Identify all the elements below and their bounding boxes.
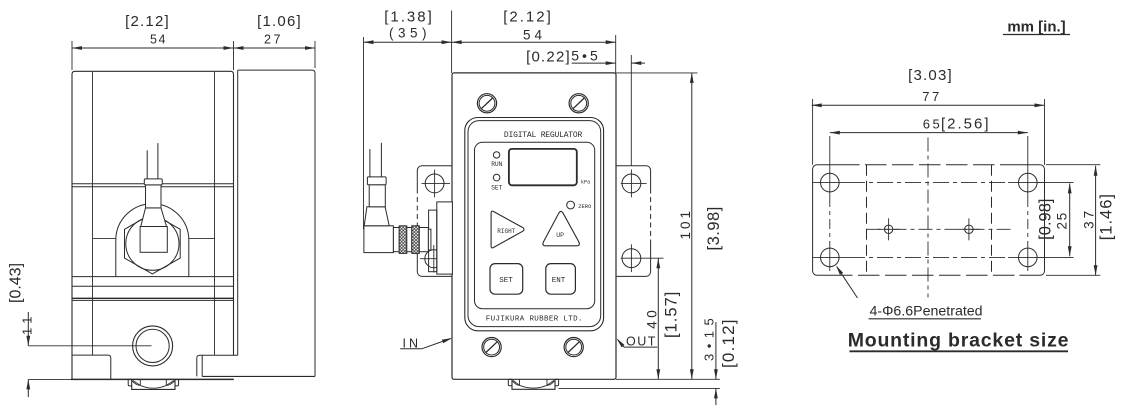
bracket: hole callout 4-phi6.6 Penetrated [837, 267, 858, 298]
front view: RIGHT button [491, 211, 524, 248]
front view: dimension 40 [1.57] [657, 258, 659, 379]
svg-text:4-Φ6.6Penetrated: 4-Φ6.6Penetrated [870, 304, 983, 320]
svg-text:101: 101 [678, 208, 693, 240]
left view: bottom left step notch [72, 355, 111, 379]
bracket: plate bottom edge hidden [831, 274, 1019, 276]
svg-text:(35): (35) [389, 25, 431, 40]
front view: corner screw bottom-left [482, 338, 501, 357]
svg-text:[2.56]: [2.56] [941, 116, 991, 133]
svg-text:54: 54 [523, 28, 546, 43]
svg-text:[2.12]: [2.12] [503, 8, 553, 25]
svg-text:40: 40 [644, 307, 659, 329]
left view: regulator body outline [72, 71, 234, 379]
front view: connector cable lines [369, 149, 371, 177]
front view: ENT key [546, 264, 576, 295]
front view: right mounting tab [616, 166, 651, 189]
front view: connector front ring [428, 229, 431, 250]
bracket: small holes centerline [867, 228, 1013, 230]
bracket: center small hole right [965, 225, 973, 233]
left view: connector clamp arch [116, 204, 189, 277]
svg-text:[1.46]: [1.46] [1098, 193, 1116, 240]
svg-text:[2.12]: [2.12] [125, 13, 170, 30]
front view: body top edge extension [616, 72, 698, 74]
bracket: center small hole left [884, 225, 892, 233]
svg-text:[0.98]: [0.98] [1037, 199, 1055, 240]
front view: dimension 54 [2.12] [452, 41, 616, 43]
front view: SET LED [493, 174, 500, 181]
bracket: hole top-left [821, 173, 840, 192]
svg-text:11: 11 [20, 312, 35, 336]
front view: connector front plate [429, 210, 437, 272]
svg-text:ENT: ENT [552, 277, 566, 285]
front view: regulator body outline [452, 73, 616, 379]
left view: body inner vertical line left [92, 72, 94, 355]
bracket: plate outline [813, 165, 838, 276]
left view: section split lines lower [72, 276, 234, 278]
left view: plug body square [140, 227, 167, 253]
front view: dimension 5.5 [0.22] [572, 62, 616, 64]
front view: SET key [490, 264, 523, 295]
left view: port leader line [28, 345, 151, 347]
left view: body inner vertical line right [214, 72, 216, 355]
bracket: dimension 77 [3.03] [812, 104, 1045, 106]
svg-text:[0.12]: [0.12] [719, 318, 738, 368]
left view: gland circle [126, 217, 179, 270]
front view: connector neck [393, 228, 399, 252]
svg-text:5•5: 5•5 [571, 48, 600, 64]
svg-text:37: 37 [1082, 208, 1097, 229]
left view: top dimension 54 mm [2.12] [72, 47, 234, 49]
left view: bottom right step lip [197, 355, 238, 376]
svg-text:[1.57]: [1.57] [662, 291, 680, 338]
left view: bottom port circle [133, 326, 173, 366]
front view: right-angle connector elbow [364, 226, 394, 253]
bracket: vertical centerline [927, 138, 929, 298]
front view: body bottom extension line [616, 378, 720, 380]
bracket: dimension 25 [0.98] [1069, 183, 1071, 256]
svg-text:DIGITAL REGULATOR: DIGITAL REGULATOR [504, 131, 583, 140]
front view: panel inner frame [468, 121, 601, 327]
svg-text:25: 25 [1055, 211, 1070, 230]
front view: RUN LED [493, 152, 499, 158]
bracket: hole centerline row top [813, 182, 849, 184]
bracket: bend line left [866, 165, 868, 276]
svg-text:Mounting bracket size: Mounting bracket size [848, 330, 1070, 352]
svg-text:SET: SET [499, 277, 513, 285]
front view: left tab hole bottom [425, 250, 443, 268]
front view: right tab hole top [622, 174, 641, 193]
left view: gland hex nut [125, 213, 181, 274]
svg-text:[0.22]: [0.22] [526, 49, 571, 66]
front view: left mounting tab [417, 166, 452, 189]
front view: ZERO LED [567, 201, 575, 209]
front view: bracket plate edge right (5.5 offset) [630, 74, 632, 166]
svg-text:OUT: OUT [626, 334, 657, 348]
front view: left tab hole top [425, 174, 444, 193]
front view: knurled ring 2 [412, 226, 420, 254]
svg-text:RIGHT: RIGHT [497, 228, 515, 235]
front view: right tab hole bottom [622, 249, 641, 268]
svg-text:3•15: 3•15 [701, 313, 716, 361]
front view: panel outer frame [465, 118, 604, 331]
svg-text:[1.38]: [1.38] [384, 8, 434, 25]
front view: corner screw top-left [477, 94, 496, 113]
svg-text:[3.98]: [3.98] [705, 206, 723, 250]
front view: display window [509, 149, 577, 185]
svg-text:ZERO: ZERO [578, 203, 592, 210]
left view: plug upper trapezoid [141, 208, 167, 227]
svg-text:kPa: kPa [581, 180, 590, 186]
bracket: hole centerline row bottom [813, 256, 849, 258]
left view: gland barrel [146, 185, 162, 208]
left view: clamp feature lines [93, 238, 116, 240]
svg-text:RUN: RUN [491, 161, 502, 168]
bracket: hole top-right [1019, 173, 1038, 192]
front view: connector cylinder [419, 228, 428, 252]
left view: vertical dimension 11 [0.43] [27, 312, 29, 346]
left view: bottom hex fitting [128, 379, 132, 386]
bracket: hole bottom-right [1019, 248, 1038, 267]
left view: section split lines upper [72, 183, 234, 185]
front view: dimension 101 [3.98] [691, 73, 693, 379]
bracket: plate top edge hidden [838, 164, 1007, 166]
front view: knurl spacer ring [407, 228, 412, 252]
left view: cable lines [146, 150, 148, 179]
bracket: hole bottom-left [821, 248, 840, 267]
left view: gland collar [144, 179, 162, 185]
front view: corner screw top-right [569, 94, 588, 113]
left view: bottom extension line [28, 378, 72, 380]
svg-text:65: 65 [923, 117, 942, 132]
front view: dimension (35) [1.38] [364, 41, 452, 43]
svg-text:FUJIKURA RUBBER LTD.: FUJIKURA RUBBER LTD. [486, 315, 583, 323]
front view: bottom hex fitting [508, 379, 512, 386]
svg-text:27: 27 [264, 33, 283, 47]
front view: panel recess [475, 142, 595, 309]
front view: connector receptacle plate on body [437, 202, 453, 274]
left view: mounting bracket plate (side) [238, 70, 315, 376]
svg-text:mm [in.]: mm [in.] [1007, 19, 1065, 36]
front view: connector shoulder [364, 207, 389, 226]
front view: connector collar [367, 177, 386, 185]
left view: bracket foot bottom edge [202, 375, 315, 377]
front view: UP button [543, 211, 579, 246]
svg-text:[0.43]: [0.43] [8, 263, 25, 303]
front view: corner screw bottom-right [564, 338, 583, 357]
left view: top dimension 27 mm [1.06] [234, 47, 316, 49]
bracket: dimension 37 [1.46] [1095, 166, 1097, 276]
svg-text:UP: UP [556, 232, 564, 239]
front view: knurled ring 1 [399, 226, 407, 254]
left view: body bottom edge [71, 378, 234, 380]
bracket: bend line right [991, 165, 993, 276]
svg-text:54: 54 [150, 33, 167, 47]
bracket: dimension 65 [2.56] [830, 132, 1028, 134]
front view: fitting bottom extension line [559, 387, 720, 389]
svg-text:[3.03]: [3.03] [908, 67, 953, 84]
svg-text:SET: SET [491, 185, 502, 192]
front view: connector barrel [369, 185, 385, 207]
svg-text:77: 77 [922, 89, 941, 104]
front view: dimension 3.15 [0.12] [715, 322, 717, 379]
svg-text:[1.06]: [1.06] [257, 13, 302, 30]
